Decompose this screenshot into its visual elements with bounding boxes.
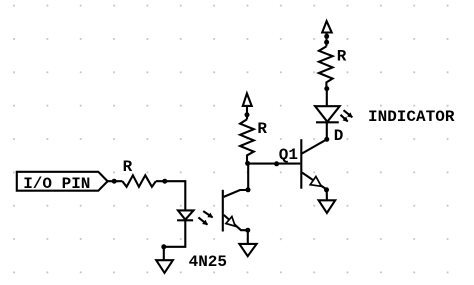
junction dot [246, 187, 251, 192]
svg-text:D: D [334, 127, 344, 145]
wire [247, 230, 249, 244]
junction dot [324, 34, 329, 39]
ground [239, 244, 256, 256]
junction dot [112, 179, 117, 184]
svg-text:I/O PIN: I/O PIN [23, 175, 90, 193]
svg-text:INDICATOR: INDICATOR [368, 108, 455, 126]
svg-text:R: R [123, 158, 133, 176]
transistor Q1 [301, 139, 327, 189]
light emission arrows [198, 211, 212, 225]
wire [163, 247, 165, 260]
resistor R1 (input) [122, 175, 155, 187]
wire [247, 163, 249, 190]
junction dot [162, 179, 167, 184]
power arrow (VCC, middle) [243, 93, 252, 119]
junction dot [324, 40, 329, 45]
resistor R2 (pull-up) [240, 119, 254, 163]
node: junction dot [245, 161, 250, 166]
wire [326, 122, 328, 139]
LED D (indicator) [315, 106, 340, 122]
light emission arrows [341, 110, 353, 121]
wire [326, 89, 328, 107]
wire [326, 190, 328, 201]
svg-text:4N25: 4N25 [189, 253, 227, 271]
ground [156, 260, 173, 273]
wire [156, 181, 185, 210]
junction dot [324, 187, 329, 192]
junction dot [245, 228, 250, 233]
junction dot [274, 161, 279, 166]
wire [108, 180, 123, 182]
LED D (4N25 input diode) [177, 210, 193, 220]
net flag I/O PIN [17, 172, 108, 191]
svg-text:R: R [257, 120, 267, 138]
ground [319, 200, 336, 213]
junction dot [245, 112, 250, 117]
junction dot [161, 244, 166, 249]
wire [325, 33, 327, 47]
resistor R3 (indicator) [319, 46, 333, 88]
junction dot [324, 137, 329, 142]
wire [248, 163, 301, 165]
phototransistor (4N25 output) [223, 190, 248, 232]
power arrow (VCC, right) [322, 21, 332, 32]
wire [164, 220, 186, 247]
svg-text:R: R [337, 47, 347, 65]
svg-text:Q1: Q1 [279, 146, 298, 164]
junction dot [324, 86, 329, 91]
